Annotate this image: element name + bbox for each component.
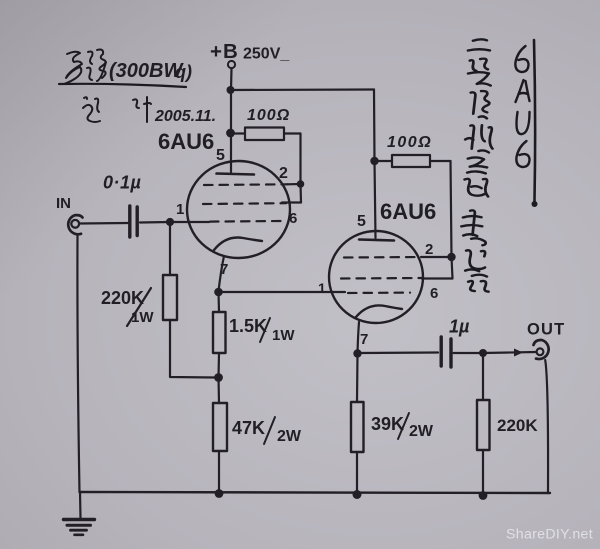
tube V1 cathode arc (214, 238, 262, 251)
wire IN jack ground drop (77, 235, 79, 493)
wire out node to R 220K (482, 353, 484, 400)
annotation vertical stroke right (534, 40, 535, 203)
wire grid1 drop to R-grid (169, 222, 171, 275)
svg-text:220K: 220K (101, 288, 144, 308)
wire cathode1 to grid2 (219, 291, 346, 293)
tube V2 cathode arc (356, 305, 402, 317)
connector IN jack (68, 215, 82, 234)
svg-text:OUT: OUT (527, 321, 565, 339)
wire pin7 tube1 drop (219, 256, 225, 291)
annotation right column (Chinese cursive vertical) (457, 39, 499, 292)
svg-text:2W: 2W (277, 428, 302, 445)
node junction out (479, 349, 487, 357)
wire pin2 tube2 out (421, 256, 452, 258)
wire top rail horizontal (231, 88, 375, 91)
resistor R-screen1 100R (234, 128, 301, 141)
wire R-grid1 bottom (170, 320, 215, 378)
wire R-cath1 bottom (217, 353, 220, 378)
wire OUT jack drop (545, 360, 548, 492)
svg-text:IN: IN (56, 195, 71, 212)
svg-text:100Ω: 100Ω (247, 107, 290, 124)
ground symbol (64, 520, 95, 535)
tube V2 grid dashes row2 (341, 277, 422, 280)
label 39K/2W value (371, 413, 434, 440)
svg-text:1µ: 1µ (449, 317, 470, 337)
node junction rail-220K (479, 491, 488, 500)
svg-text:(300BW: (300BW (109, 60, 184, 82)
wire bottom ground rail (80, 492, 551, 493)
node junction pin2-6 tube2 (447, 253, 455, 261)
resistor R-cath1 1.5K (213, 312, 226, 353)
resistor R-screen2 100R (378, 155, 451, 167)
svg-text:250V_: 250V_ (243, 46, 290, 63)
resistor R-load 220K (477, 400, 490, 450)
tube V2 grid dashes row1 (344, 256, 421, 259)
svg-text:0·1µ: 0·1µ (103, 173, 142, 193)
capacitor C-out 1u (441, 337, 451, 367)
wire screen2 drop (451, 161, 452, 257)
svg-text:1W: 1W (272, 327, 295, 344)
svg-text:6: 6 (289, 210, 297, 227)
wire out node to OUT jack with arrow (483, 352, 536, 353)
annotation 6AU6 vertical (515, 46, 529, 167)
node junction cathode2 (353, 349, 361, 357)
wire R-tail to ground rail (218, 451, 220, 493)
svg-text:2: 2 (425, 241, 433, 258)
resistor R-cath2 39K (351, 402, 364, 452)
wire pin2-pin6 link tube1 (282, 184, 301, 203)
annotation line2 (she ji 2005.11.) (83, 97, 151, 122)
svg-text:6AU6: 6AU6 (380, 199, 436, 224)
connector OUT jack (534, 340, 549, 359)
svg-text:2W: 2W (409, 423, 434, 440)
svg-text:2: 2 (279, 165, 288, 182)
svg-text:5: 5 (216, 147, 225, 164)
svg-text:6AU6: 6AU6 (158, 129, 214, 154)
label 47K/2W value (232, 417, 302, 445)
annotation title underline (59, 84, 186, 87)
wire cap to grid node (140, 221, 170, 224)
svg-text:5: 5 (357, 213, 366, 230)
node junction bias1 (214, 373, 223, 382)
svg-text:2005.11.: 2005.11. (154, 108, 216, 125)
wire bias to R 47K (217, 378, 220, 404)
wire +B drop to rail (230, 69, 233, 91)
node junction rail-39K (353, 490, 362, 499)
wire cathode2 to out cap (358, 351, 439, 354)
tube V1 grid dashes row3 (210, 220, 282, 223)
wire plate drop tube1 (230, 90, 232, 172)
wire top rail right drop (373, 90, 376, 162)
svg-text:7: 7 (360, 331, 368, 348)
wire cap to out node (454, 352, 484, 354)
node junction cathode1 (214, 288, 223, 297)
tube V2 top grid bar (pin5) (359, 240, 394, 241)
node junction screen2 feed (370, 157, 378, 165)
svg-text:1: 1 (318, 280, 326, 296)
wire pin2-pin6 link tube2 (422, 257, 453, 279)
resistor R-grid1 220K (163, 275, 177, 320)
svg-text:6: 6 (430, 285, 438, 302)
capacitor C-in 0.1u (130, 206, 137, 237)
svg-text:1W: 1W (131, 309, 154, 326)
node +B supply terminal (228, 61, 235, 68)
wire pin2 tube1 out (287, 183, 301, 186)
annotation title line1 (Chinese cursive + 300BWQ) (64, 50, 106, 85)
wire cathode1 to R 1.5K (217, 292, 220, 312)
wire pin1 tube1 grid entry (170, 221, 209, 223)
svg-text:q): q) (175, 62, 192, 82)
resistor R-tail 47K (213, 403, 227, 451)
node junction grid1 (166, 218, 174, 226)
label 1.5K/1W value (229, 316, 295, 344)
node junction rail-47K (215, 489, 224, 498)
svg-text:47K: 47K (232, 418, 265, 438)
svg-text:39K: 39K (371, 414, 404, 434)
tube V1 grid dashes row1 (204, 183, 288, 186)
svg-text:1: 1 (176, 201, 184, 218)
tube V1 top grid bar (pin5) (217, 174, 255, 175)
wire cathode2 to R 39K (356, 354, 359, 403)
label 220K/1W value (101, 288, 154, 326)
wire IN to cap (80, 222, 129, 225)
tube V1 grid dashes row2 (203, 202, 286, 205)
tube V2 6AU6 envelope (329, 231, 423, 323)
svg-text:+B: +B (210, 40, 239, 63)
wire screen1 drop (299, 134, 301, 185)
wire pin7 tube2 drop (358, 322, 360, 353)
svg-text:ShareDIY.net: ShareDIY.net (506, 527, 593, 543)
svg-text:100Ω: 100Ω (387, 134, 432, 151)
svg-text:220K: 220K (497, 416, 538, 435)
wire R-cath2 to rail (356, 452, 358, 494)
wire ground stub (79, 492, 82, 518)
tube V1 6AU6 envelope (187, 161, 290, 258)
wire R-load to rail (482, 450, 484, 495)
tube V2 grid dashes row3 (348, 292, 410, 295)
svg-text:1.5K: 1.5K (229, 316, 267, 336)
node junction B-rail (227, 86, 235, 94)
node junction screen1 feed (226, 129, 235, 138)
label +B 250V (210, 40, 290, 63)
wire plate drop tube2 (375, 161, 376, 238)
node junction pin2-6 tube1 (297, 180, 305, 188)
